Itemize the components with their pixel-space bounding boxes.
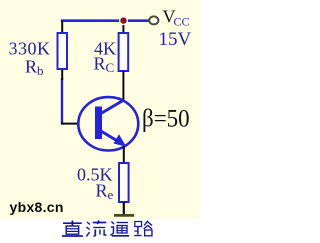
- resistor Rb 330K body: [58, 33, 68, 69]
- wire left vertical (Rb bottom to base corner): [61, 78, 63, 125]
- wire top horizontal from left branch to VCC terminal: [61, 19, 149, 22]
- transistor Q1 emitter arrowhead: [114, 134, 127, 147]
- svg-text:CC: CC: [174, 15, 190, 29]
- svg-text:15V: 15V: [159, 29, 192, 50]
- background cream area: [0, 0, 200, 219]
- caption 直流通路 (drawn strokes): [62, 221, 152, 237]
- junction dot on VCC rail: [119, 16, 128, 25]
- terminal circle VCC: [149, 16, 158, 24]
- wire base horizontal lead (black): [61, 123, 80, 125]
- wire Rb bottom lead (black): [61, 69, 63, 80]
- wire Rb top lead (black): [61, 21, 63, 34]
- wire collector lead (black): [122, 71, 124, 101]
- wire ground lead (black): [123, 202, 125, 215]
- wire emitter lead (black): [123, 146, 125, 164]
- resistor Re 0.5K body: [119, 163, 129, 202]
- svg-text:β=50: β=50: [142, 105, 190, 133]
- char 流: [86, 221, 106, 237]
- transistor Q1 circle: [78, 97, 138, 150]
- char 直: [62, 221, 83, 237]
- char 通: [110, 222, 129, 236]
- background white caption strip: [0, 219, 200, 238]
- char 路: [134, 221, 152, 236]
- svg-text:330K: 330K: [9, 39, 51, 59]
- svg-text:ybx8.cn: ybx8.cn: [10, 199, 64, 215]
- ground bar: [114, 214, 134, 217]
- resistor Rc 4K body: [119, 33, 129, 71]
- wire Rc top lead (black): [122, 21, 124, 34]
- transistor Q1 collector diagonal: [100, 100, 124, 114]
- transistor Q1 base bar: [95, 107, 102, 140]
- transistor Q1 emitter diagonal: [100, 131, 120, 143]
